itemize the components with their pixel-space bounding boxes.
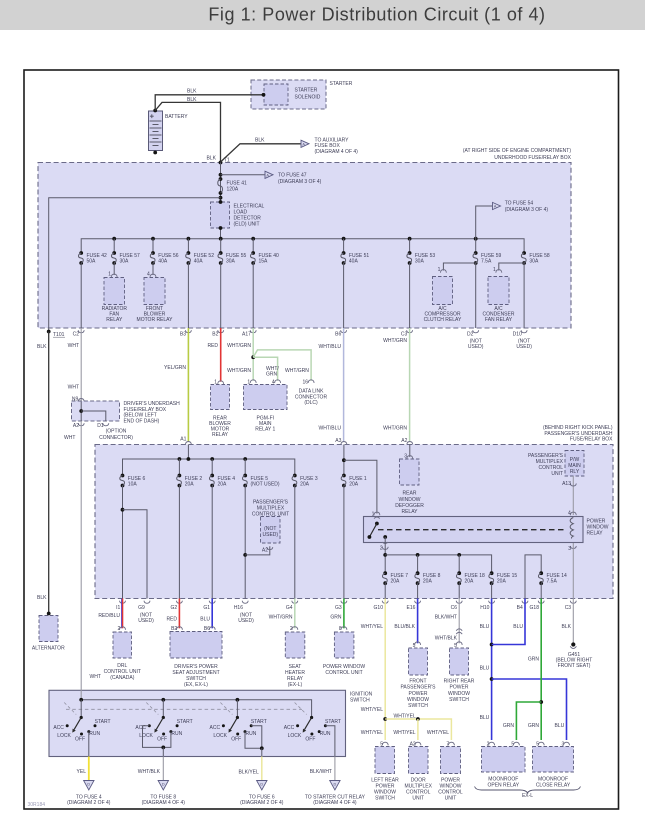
svg-text:STARTER: STARTER xyxy=(330,81,353,87)
fuse FUSE 42 50A xyxy=(79,251,83,255)
svg-text:20A: 20A xyxy=(300,482,310,488)
svg-text:RELAY: RELAY xyxy=(401,509,418,515)
svg-text:USED): USED) xyxy=(516,344,532,350)
svg-text:(EX, EX-L): (EX, EX-L) xyxy=(184,682,208,688)
branch GRN to moonroof open relay pin 5 xyxy=(516,702,541,740)
svg-text:STARTER: STARTER xyxy=(295,88,318,94)
svg-text:20A: 20A xyxy=(218,482,228,488)
exit C2 connector xyxy=(78,330,84,333)
fuse FUSE 15 20A xyxy=(490,571,494,575)
underhood fuse/relay box U1 xyxy=(38,163,571,329)
exit G9 connector xyxy=(144,601,150,604)
svg-text:A2: A2 xyxy=(401,438,407,444)
exit D1 option connector xyxy=(103,423,109,426)
svg-text:START: START xyxy=(177,719,193,725)
svg-text:FRONT SEAT): FRONT SEAT) xyxy=(558,663,591,669)
exit B3 connector xyxy=(185,330,191,333)
svg-text:WHT/BLK: WHT/BLK xyxy=(435,635,458,641)
svg-text:120A: 120A xyxy=(227,186,239,192)
svg-text:WHT/BLK: WHT/BLK xyxy=(138,769,161,775)
svg-text:D10: D10 xyxy=(513,332,522,338)
svg-text:40A: 40A xyxy=(158,258,168,264)
exit G10 connector xyxy=(382,601,388,604)
svg-text:G18: G18 xyxy=(530,605,540,611)
wire RED G2 to seat adjustment switch xyxy=(178,599,180,629)
branch to passenger multiplex control unit A2 xyxy=(243,553,247,557)
fuse FUSE 56 40A xyxy=(152,239,154,253)
ignition switch position set 1 xyxy=(80,700,82,718)
svg-text:7.5A: 7.5A xyxy=(481,258,492,264)
passenger's multiplex control unit U5 (not used) xyxy=(267,547,273,550)
svg-text:WHT/GRN: WHT/GRN xyxy=(227,368,251,374)
exit C6 connector xyxy=(456,601,462,604)
svg-text:BLK/WHT: BLK/WHT xyxy=(435,615,457,621)
svg-text:(DIAGRAM 2 OF 4): (DIAGRAM 2 OF 4) xyxy=(67,800,111,806)
exit B6 connector xyxy=(341,330,347,333)
svg-text:(DIAGRAM 4 OF 4): (DIAGRAM 4 OF 4) xyxy=(142,800,186,806)
wire YEL to fuse 4 arrow xyxy=(88,757,90,781)
main bus wire underhood xyxy=(81,239,524,253)
svg-text:RED: RED xyxy=(166,616,177,622)
svg-text:TO FUSE 54: TO FUSE 54 xyxy=(505,200,534,206)
switch 4 output wire from START xyxy=(325,726,335,757)
svg-text:(ELD) UNIT: (ELD) UNIT xyxy=(234,222,260,228)
svg-text:WHT/BLU: WHT/BLU xyxy=(319,344,342,350)
svg-text:EX-L: EX-L xyxy=(522,793,533,799)
exit B4 connector xyxy=(522,601,528,604)
svg-text:10A: 10A xyxy=(128,482,138,488)
wire BLK T101 to alternator xyxy=(48,332,50,615)
fuse FUSE 7 20A xyxy=(383,571,387,575)
exit C3 connector xyxy=(407,330,413,333)
svg-text:BLU: BLU xyxy=(513,624,523,630)
wire fuse5 to H16 exit xyxy=(244,486,246,599)
wire fuse1 to G3 exit xyxy=(343,486,345,599)
svg-text:SWITCH: SWITCH xyxy=(350,698,370,704)
wire fuse2 to G2 exit xyxy=(178,486,180,599)
wire GRN G3 to power window control unit xyxy=(343,599,345,629)
svg-text:G1: G1 xyxy=(203,605,210,611)
svg-text:C3: C3 xyxy=(565,605,572,611)
svg-text:20A: 20A xyxy=(349,482,359,488)
svg-text:SWITCH: SWITCH xyxy=(375,796,395,802)
branch to fuse 47 arrow xyxy=(219,173,223,177)
svg-text:UNIT: UNIT xyxy=(412,796,424,802)
svg-text:D: D xyxy=(87,783,90,787)
svg-text:BLU: BLU xyxy=(200,616,210,622)
svg-text:WHT/GRN: WHT/GRN xyxy=(285,368,309,374)
svg-text:BLK: BLK xyxy=(562,624,572,630)
wire BLU B4 joins H10 xyxy=(492,599,525,645)
svg-text:CLUTCH RELAY: CLUTCH RELAY xyxy=(424,317,462,323)
svg-text:RED/BLU: RED/BLU xyxy=(98,613,120,619)
ignition switch position set 2 xyxy=(162,700,164,718)
wire BLK/WHT C6 to right rear power window switch xyxy=(458,599,460,644)
wire WHT/BLU B6 to A3 xyxy=(343,328,345,442)
svg-text:Fig 1: Power Distribution Circ: Fig 1: Power Distribution Circuit (1 of … xyxy=(208,5,545,25)
svg-text:(DIAGRAM 4 OF 4): (DIAGRAM 4 OF 4) xyxy=(315,149,359,155)
fuse FUSE 3 20A xyxy=(293,474,297,478)
connector A13 xyxy=(570,483,576,486)
mechanical link dashed line xyxy=(66,708,302,710)
svg-text:BATTERY: BATTERY xyxy=(165,114,188,120)
svg-text:WHT: WHT xyxy=(90,674,101,680)
entry A1 connector xyxy=(185,442,191,445)
svg-text:16: 16 xyxy=(303,379,309,385)
entry A3 connector xyxy=(341,442,347,445)
svg-text:30A: 30A xyxy=(226,258,236,264)
svg-text:LOCK: LOCK xyxy=(57,733,71,739)
svg-text:OFF: OFF xyxy=(305,737,315,743)
exit D2 connector (not used) xyxy=(473,330,479,333)
exit D10 connector (not used) xyxy=(521,330,527,333)
driver's power seat adjustment switch S2 xyxy=(170,632,222,659)
wire fuse51 to B6 exit xyxy=(343,263,345,328)
wire WHT/BLK to fuse 8 arrow xyxy=(162,757,164,781)
svg-text:30A: 30A xyxy=(120,258,130,264)
fuse FUSE 8 20A xyxy=(416,571,420,575)
svg-text:START: START xyxy=(251,719,267,725)
svg-text:(EX-L): (EX-L) xyxy=(288,682,303,688)
driver's underdash fuse/relay box U4 xyxy=(72,401,120,421)
exit I1 connector xyxy=(120,601,126,604)
svg-text:REAR: REAR xyxy=(403,491,417,497)
wire WHT/GRN A17 to PGM-FI main relay xyxy=(252,328,254,381)
svg-text:40A: 40A xyxy=(194,258,204,264)
svg-text:PASSENGER'S: PASSENGER'S xyxy=(400,685,436,691)
exit A2 connector of driver's box xyxy=(78,423,84,426)
svg-text:A13: A13 xyxy=(562,481,571,487)
svg-text:UNIT: UNIT xyxy=(551,471,563,477)
svg-text:WHT/GRN: WHT/GRN xyxy=(227,343,251,349)
svg-text:D2: D2 xyxy=(467,332,474,338)
svg-text:20A: 20A xyxy=(391,579,401,585)
svg-text:3: 3 xyxy=(568,546,571,552)
svg-text:(DIAGRAM 2 OF 4): (DIAGRAM 2 OF 4) xyxy=(240,800,284,806)
svg-text:RED: RED xyxy=(207,343,218,349)
branch to G9 exit xyxy=(121,508,125,512)
svg-text:7.5A: 7.5A xyxy=(547,579,558,585)
svg-text:2: 2 xyxy=(380,545,383,551)
svg-text:SOLENOID: SOLENOID xyxy=(295,94,321,100)
svg-text:RUN: RUN xyxy=(89,731,100,737)
svg-text:WHT/YEL: WHT/YEL xyxy=(361,707,383,713)
svg-text:OFF: OFF xyxy=(157,737,167,743)
svg-text:POWER: POWER xyxy=(587,518,606,524)
svg-text:1: 1 xyxy=(108,271,111,277)
svg-text:RLY: RLY xyxy=(570,469,580,475)
switch 3 RUN-START bracket wire xyxy=(245,726,262,749)
svg-text:POWER: POWER xyxy=(409,691,428,697)
wire fuse59 to D2 exit xyxy=(475,263,477,328)
svg-text:USED): USED) xyxy=(238,618,254,624)
svg-text:LOCK: LOCK xyxy=(213,733,227,739)
ignition switch position set 4 xyxy=(295,703,307,715)
branch fuse59 to A/C compressor clutch relay xyxy=(443,263,475,271)
feeder wire to fuses 8 18 15 xyxy=(385,555,491,573)
fuse FUSE 4 20A xyxy=(210,474,214,478)
svg-text:BLU/BLK: BLU/BLK xyxy=(394,624,415,630)
svg-text:30A: 30A xyxy=(529,258,539,264)
exit G18 connector xyxy=(538,601,544,604)
wire YEL/GRN B3 to A1 xyxy=(187,328,189,442)
wire fuse42 to C2 exit xyxy=(80,263,82,328)
svg-text:30R184: 30R184 xyxy=(28,802,46,808)
ignition switch bus wire xyxy=(80,690,82,700)
fuse F1 20A xyxy=(342,474,346,478)
svg-text:G2: G2 xyxy=(171,605,178,611)
svg-text:4: 4 xyxy=(147,271,150,277)
svg-text:START: START xyxy=(325,719,341,725)
svg-text:(AT RIGHT SIDE OF ENGINE COMPA: (AT RIGHT SIDE OF ENGINE COMPARTMENT) xyxy=(463,148,571,154)
svg-text:RIGHT REAR: RIGHT REAR xyxy=(444,679,475,685)
svg-text:POWER: POWER xyxy=(450,685,469,691)
svg-text:GRN: GRN xyxy=(330,615,342,621)
svg-text:D: D xyxy=(162,783,165,787)
EX-L brace xyxy=(475,787,581,794)
wire GRN G18 to moonroof relays xyxy=(540,599,542,741)
svg-text:C3: C3 xyxy=(401,332,408,338)
fuse FUSE 52 40A xyxy=(187,239,189,253)
svg-text:RUN: RUN xyxy=(245,731,256,737)
svg-text:CLOSE RELAY: CLOSE RELAY xyxy=(536,782,571,788)
exit C3 connector xyxy=(570,601,576,604)
wire fuse57 to radiator fan relay xyxy=(113,263,115,275)
wire fuse56 to front blower relay xyxy=(152,263,154,275)
svg-text:RUN: RUN xyxy=(171,731,182,737)
svg-text:WINDOW: WINDOW xyxy=(399,497,421,503)
svg-text:LOCK: LOCK xyxy=(288,733,302,739)
svg-text:40A: 40A xyxy=(349,258,359,264)
fuse FUSE 40 15A xyxy=(252,239,254,253)
svg-text:BLK: BLK xyxy=(255,137,265,143)
switch 1 output wire from RUN xyxy=(88,732,90,757)
fuse FUSE 58 30A xyxy=(522,251,526,255)
svg-text:WINDOW: WINDOW xyxy=(448,691,470,697)
wire WHT C2 to driver's underdash box xyxy=(80,328,82,402)
svg-text:20A: 20A xyxy=(423,579,433,585)
svg-text:LOCK: LOCK xyxy=(139,733,153,739)
branch fuse58 to A/C condenser fan relay xyxy=(499,263,524,271)
svg-text:15A: 15A xyxy=(259,258,269,264)
svg-text:(OPTION: (OPTION xyxy=(106,428,127,434)
wire fuse6 to I1 exit xyxy=(122,486,124,599)
right rear power window switch S5 xyxy=(450,648,469,675)
loop wire B4 to fuse 14 xyxy=(525,555,541,599)
exit H10 connector xyxy=(489,601,495,604)
fuse FUSE 6 10A xyxy=(121,474,125,478)
exit H16 connector xyxy=(242,601,248,604)
P/W main relay inside passenger multiplex control unit U6 xyxy=(565,451,584,477)
wire WHT to ignition switch xyxy=(80,421,82,690)
svg-text:G4: G4 xyxy=(286,605,293,611)
svg-text:BLK: BLK xyxy=(37,344,47,350)
svg-text:(NOT USED): (NOT USED) xyxy=(251,482,280,488)
svg-text:G10: G10 xyxy=(374,605,384,611)
svg-text:H10: H10 xyxy=(480,605,489,611)
wire BLU/BLK E16 to front passenger's power window switch xyxy=(417,599,419,644)
svg-text:G3: G3 xyxy=(335,605,342,611)
wire fuse55 to B2 exit xyxy=(220,263,222,328)
svg-text:(DIAGRAM 3 OF 4): (DIAGRAM 3 OF 4) xyxy=(278,179,322,185)
wire fuse53 to C3 exit xyxy=(409,263,411,328)
svg-text:WHT/YEL: WHT/YEL xyxy=(361,624,383,630)
svg-text:BLK: BLK xyxy=(187,89,197,95)
exit G4 connector xyxy=(292,601,298,604)
ignition switch box SW1 xyxy=(49,690,346,756)
passenger's underdash fuse/relay box U2 xyxy=(95,445,613,599)
ground G451 xyxy=(571,642,575,646)
svg-text:WHT/YEL: WHT/YEL xyxy=(394,714,416,720)
arrow to auxiliary fuse box xyxy=(301,140,309,147)
wire fuse58 to D10 exit xyxy=(523,263,525,328)
svg-text:H16: H16 xyxy=(234,605,243,611)
fuse F41 120A xyxy=(219,177,223,181)
wire A13 to power window relay pin 4 xyxy=(572,476,574,515)
svg-text:START: START xyxy=(95,719,111,725)
svg-text:ACC: ACC xyxy=(53,725,64,731)
svg-text:B4: B4 xyxy=(517,605,523,611)
inline connector on C6 wire xyxy=(456,629,462,631)
wire pin2 to lower fuse row xyxy=(384,543,386,573)
svg-text:G9: G9 xyxy=(138,605,145,611)
svg-text:BLK: BLK xyxy=(37,595,47,601)
wire to fuse 54 arrow xyxy=(476,206,493,239)
wire RED/BLU I1 to DRL control unit xyxy=(122,599,124,629)
svg-text:UNDERHOOD FUSE/RELAY BOX: UNDERHOOD FUSE/RELAY BOX xyxy=(494,155,571,161)
fuse FUSE 2 20A xyxy=(178,474,182,478)
fuse FUSE 14 7.5A xyxy=(539,571,543,575)
svg-text:C2: C2 xyxy=(73,332,80,338)
alternator G1 xyxy=(39,616,58,642)
svg-text:(CANADA): (CANADA) xyxy=(110,675,135,681)
svg-text:RELAY: RELAY xyxy=(106,317,123,323)
svg-text:YEL: YEL xyxy=(77,769,87,775)
svg-text:WHT/GRN: WHT/GRN xyxy=(383,426,407,432)
wire fuse40 to A17 exit xyxy=(252,263,254,328)
svg-text:(DLC): (DLC) xyxy=(304,400,318,406)
svg-text:SWITCH: SWITCH xyxy=(449,697,469,703)
svg-text:I1: I1 xyxy=(116,605,120,611)
svg-text:GRN: GRN xyxy=(528,656,540,662)
svg-text:WHT/GRN: WHT/GRN xyxy=(383,338,407,344)
ELD unit U3 xyxy=(211,202,230,228)
svg-text:CONTROL UNIT: CONTROL UNIT xyxy=(325,670,362,676)
fuse FUSE 57 30A xyxy=(113,239,115,253)
svg-text:ALTERNATOR: ALTERNATOR xyxy=(32,646,65,652)
exit G1 connector xyxy=(209,601,215,604)
wire BLU H10 trunk to moonroof open relay xyxy=(491,599,493,741)
svg-text:RELAY: RELAY xyxy=(587,531,604,537)
svg-text:BLU: BLU xyxy=(554,723,564,729)
svg-text:A3: A3 xyxy=(335,438,341,444)
wire WHT/GRN C3 to A2 xyxy=(409,328,411,442)
svg-text:DEFOGGER: DEFOGGER xyxy=(395,503,424,509)
svg-text:D: D xyxy=(334,783,337,787)
svg-text:WHT: WHT xyxy=(64,435,75,441)
wire BLK/WHT to starter cut relay arrow xyxy=(334,757,336,781)
exit B2 connector xyxy=(218,330,224,333)
wire fuse4 to G1 exit xyxy=(211,486,213,599)
svg-text:RUN: RUN xyxy=(320,731,331,737)
svg-text:BLK/YEL: BLK/YEL xyxy=(239,770,260,776)
svg-text:USED): USED) xyxy=(468,344,484,350)
svg-text:BLU: BLU xyxy=(480,665,490,671)
svg-text:OFF: OFF xyxy=(75,737,85,743)
svg-text:UNIT: UNIT xyxy=(445,796,457,802)
fuse FUSE 53 30A xyxy=(409,239,411,253)
fuse FUSE 59 7.5A xyxy=(475,239,477,253)
wire BLK battery to T1 trunk xyxy=(155,102,220,162)
svg-text:(DIAGRAM 3 OF 4): (DIAGRAM 3 OF 4) xyxy=(505,207,549,213)
svg-text:FRONT: FRONT xyxy=(409,679,426,685)
svg-text:OPEN RELAY: OPEN RELAY xyxy=(488,782,520,788)
exit A17 connector xyxy=(250,330,256,333)
wire A3 to fuse1 and power window relay pin 1 xyxy=(343,445,345,476)
relay K9 seat heater relay xyxy=(285,632,305,658)
wire A2 to rear window defogger relay pin 3 xyxy=(409,445,411,458)
wire trunk T1 down to bus xyxy=(220,163,222,240)
fuse FUSE 51 40A xyxy=(343,239,345,253)
exit G3 connector xyxy=(341,601,347,604)
fuse FUSE 55 30A xyxy=(220,239,222,253)
svg-text:WHT/GRN: WHT/GRN xyxy=(269,615,293,621)
power window relay coil pins 4-3 xyxy=(570,518,573,539)
wire WHT/YEL G10 trunk xyxy=(384,599,386,741)
svg-text:TO FUSE 47: TO FUSE 47 xyxy=(278,173,307,179)
starter solenoid box xyxy=(251,80,326,109)
svg-text:GRN: GRN xyxy=(528,723,540,729)
wire BLK battery to solenoid xyxy=(155,95,263,111)
wire BLK to auxiliary fuse box arrow xyxy=(221,144,301,162)
svg-text:CONTROL UNIT: CONTROL UNIT xyxy=(252,512,289,518)
svg-text:D1: D1 xyxy=(97,423,104,429)
fuse FUSE 18 20A xyxy=(457,571,461,575)
wire BLK/YEL to fuse 6 arrow xyxy=(261,757,263,781)
branch WHT/YEL to door multiplex and power window control units xyxy=(385,719,451,740)
front passenger's power window switch S4 xyxy=(409,648,428,675)
svg-text:WHT/BLU: WHT/BLU xyxy=(319,426,342,432)
svg-text:WHT: WHT xyxy=(68,384,79,390)
svg-text:MOTOR RELAY: MOTOR RELAY xyxy=(137,317,174,323)
svg-text:WINDOW: WINDOW xyxy=(407,697,429,703)
wire fuse52 to B3 exit xyxy=(187,263,189,328)
title bar xyxy=(0,0,645,30)
node T1 xyxy=(219,161,223,165)
svg-text:END OF DASH): END OF DASH) xyxy=(124,419,160,425)
svg-text:RELAY 1: RELAY 1 xyxy=(255,427,275,433)
branch WHT/GRN to PGM-FI pin 4 xyxy=(253,357,277,381)
svg-text:USED): USED) xyxy=(138,618,154,624)
svg-text:B6: B6 xyxy=(335,332,341,338)
wire BLU G1 to seat adjustment switch xyxy=(211,599,213,629)
bus wire passenger box xyxy=(187,445,189,460)
svg-text:A17: A17 xyxy=(242,332,251,338)
entry A2 connector xyxy=(407,442,413,445)
fuse FUSE 5 (NOT USED) xyxy=(243,474,247,478)
svg-text:RELAY: RELAY xyxy=(212,432,229,438)
svg-text:ACC: ACC xyxy=(210,725,221,731)
svg-text:D: D xyxy=(260,783,263,787)
svg-text:OFF: OFF xyxy=(231,737,241,743)
svg-text:ACC: ACC xyxy=(284,725,295,731)
svg-text:SWITCH: SWITCH xyxy=(408,703,428,709)
battery BAT xyxy=(149,111,163,151)
svg-text:20A: 20A xyxy=(185,482,195,488)
exit E16 connector xyxy=(415,601,421,604)
svg-text:GRN: GRN xyxy=(266,372,278,378)
wire WHT/GRN G4 to seat heater relay xyxy=(294,599,296,629)
